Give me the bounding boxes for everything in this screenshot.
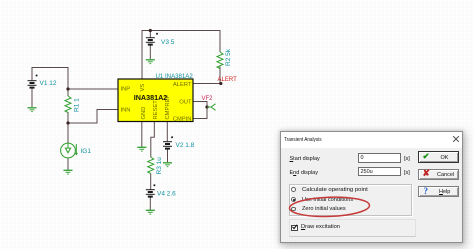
resistor R2 <box>217 52 223 68</box>
wire GND pin <box>141 122 143 148</box>
frame around checkbox <box>289 219 416 237</box>
wire R2 bottom to ALERT node <box>193 67 220 84</box>
label V2 1.8 <box>176 142 195 149</box>
wire V1 bottom lead <box>31 88 33 108</box>
battery V1 <box>28 75 38 88</box>
svg-text:R1 1: R1 1 <box>74 98 81 112</box>
pin VS <box>140 84 146 92</box>
pin INN <box>121 108 131 114</box>
button Help <box>418 186 459 197</box>
label R1 1 <box>74 98 81 112</box>
field Start display <box>290 156 320 162</box>
svg-text:INA381A2: INA381A2 <box>134 93 168 102</box>
label V4 2.6 <box>157 191 176 198</box>
node ALERT <box>218 77 238 85</box>
label R3 1u <box>156 157 163 175</box>
wire INN net <box>68 110 118 124</box>
svg-text:IG1: IG1 <box>81 148 92 155</box>
button Cancel <box>418 169 459 180</box>
node VF2 probe <box>202 96 216 110</box>
wire V1 top to R1 column <box>32 68 68 144</box>
svg-text:RESET: RESET <box>153 100 159 120</box>
ground below GND pin <box>137 147 146 151</box>
pin CMPREF <box>165 95 171 120</box>
wire V4 to ground <box>149 197 151 210</box>
checkbox Draw excitation <box>291 225 298 232</box>
resistor R3 <box>148 157 154 174</box>
svg-text:CMPREF: CMPREF <box>165 95 171 120</box>
pin GND <box>141 107 147 120</box>
pin RESET <box>153 100 159 120</box>
close X <box>452 135 460 143</box>
wire RESET pin to R3 <box>151 122 155 158</box>
pin CMPIN <box>173 117 192 123</box>
wire R3 to V4 <box>150 173 152 189</box>
wire IG1 bottom lead <box>67 158 69 170</box>
svg-text:V3 5: V3 5 <box>161 39 175 46</box>
node junction V3 top <box>149 29 152 32</box>
group box radios <box>289 184 412 216</box>
svg-text:VF2: VF2 <box>202 96 214 102</box>
resistor R1 <box>65 96 71 112</box>
wire INP net <box>68 88 118 90</box>
label R2 5k <box>225 48 232 66</box>
svg-text:V2 1.8: V2 1.8 <box>176 142 195 149</box>
node junction INN <box>66 121 69 124</box>
svg-text:INP: INP <box>121 86 131 92</box>
ground below V2 <box>163 163 172 167</box>
svg-text:ALERT: ALERT <box>218 77 238 83</box>
svg-text:R2 5k: R2 5k <box>225 48 232 66</box>
svg-text:V1 12: V1 12 <box>40 80 57 87</box>
pin ALERT <box>173 82 192 88</box>
current source IG1 <box>61 143 78 158</box>
ground below IG1 <box>64 170 73 174</box>
battery V3 <box>146 33 158 45</box>
svg-text:CMPIN: CMPIN <box>173 117 192 123</box>
dialog Transient Analysis <box>280 131 463 243</box>
battery V4 <box>146 184 156 196</box>
wire V2 to ground <box>167 149 169 163</box>
svg-text:V4 2.6: V4 2.6 <box>157 191 176 198</box>
wire CMPREF pin to V2 <box>166 122 168 142</box>
pin OUT <box>179 100 192 106</box>
svg-text:R3 1u: R3 1u <box>156 157 163 175</box>
label V3 5 <box>161 39 175 46</box>
svg-text:VS: VS <box>140 84 146 92</box>
op-amp U1 INA381A2 <box>118 73 193 122</box>
svg-text:OUT: OUT <box>179 100 192 106</box>
ground below V1 <box>28 108 37 112</box>
button OK <box>418 151 459 164</box>
svg-text:INN: INN <box>121 108 131 114</box>
label V1 12 <box>40 80 57 87</box>
wire V3 leads <box>149 31 151 60</box>
field End display <box>290 170 318 176</box>
svg-text:ALERT: ALERT <box>173 82 192 88</box>
pin INP <box>121 86 131 92</box>
node junction INP <box>66 87 69 90</box>
battery V2 <box>163 136 173 148</box>
wire VS supply top <box>142 31 220 80</box>
ground below V4 <box>146 210 155 214</box>
svg-text:GND: GND <box>141 107 147 120</box>
label IG1 <box>81 148 92 155</box>
wire OUT to CMPIN feedback <box>193 102 207 119</box>
ground below V3 <box>146 60 155 64</box>
title bar <box>281 132 462 148</box>
svg-text:U1 INA381A2: U1 INA381A2 <box>156 73 194 80</box>
